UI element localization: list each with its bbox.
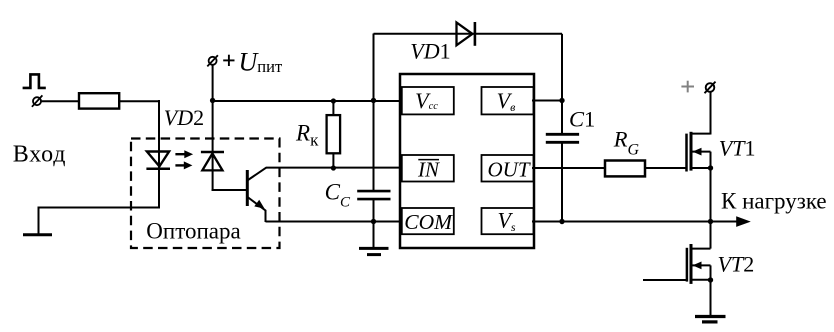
svg-text:Rк: Rк: [295, 120, 319, 149]
svg-text:VT1: VT1: [719, 136, 756, 161]
svg-text:Vв: Vв: [497, 88, 516, 114]
svg-text:C1: C1: [569, 107, 595, 132]
svg-text:RG: RG: [613, 126, 640, 158]
svg-text:IN: IN: [417, 157, 440, 181]
svg-text:CC: CC: [325, 180, 351, 211]
svg-text:VT2: VT2: [718, 251, 755, 276]
svg-text:VD2: VD2: [164, 105, 204, 130]
svg-text:VD1: VD1: [410, 38, 450, 63]
svg-text:Вход: Вход: [13, 141, 67, 167]
svg-text:Vs: Vs: [497, 208, 515, 235]
svg-text:Vcc: Vcc: [415, 88, 438, 113]
svg-text:Оптопара: Оптопара: [146, 218, 240, 243]
svg-text:К нагрузке: К нагрузке: [721, 189, 827, 214]
svg-text:COM: COM: [404, 210, 453, 234]
svg-text:OUT: OUT: [487, 157, 530, 181]
svg-text:Uпит: Uпит: [239, 48, 283, 77]
